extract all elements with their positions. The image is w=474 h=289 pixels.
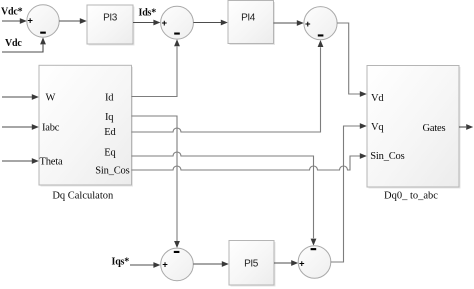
svg-text:+: +: [162, 260, 168, 271]
svg-text:Dq0_ to_abc: Dq0_ to_abc: [384, 191, 438, 202]
wire Vdc to summing junction S1 bottom: [2, 37, 46, 52]
svg-text:Vq: Vq: [371, 122, 384, 133]
svg-text:Id: Id: [105, 92, 114, 103]
svg-text:Sin_Cos: Sin_Cos: [95, 165, 129, 176]
svg-text:W: W: [46, 93, 56, 104]
wire Vdc* to summing junction S1: [2, 18, 27, 24]
svg-text:Theta: Theta: [40, 157, 63, 168]
svg-text:Eq: Eq: [104, 148, 116, 159]
wire S4 to PI5: [193, 261, 229, 267]
svg-text:Vdc: Vdc: [5, 38, 22, 49]
block Dq0_to_abc: [367, 66, 461, 189]
wire Eq to S5 top: [132, 152, 317, 246]
wire input W: [2, 94, 39, 100]
svg-text:+: +: [27, 16, 33, 27]
svg-text:PI3: PI3: [103, 13, 118, 24]
svg-text:+: +: [299, 259, 305, 270]
wire PI3 to summing junction S2: [133, 20, 160, 26]
wire S1 to PI3: [59, 18, 87, 24]
svg-text:PI4: PI4: [241, 13, 256, 24]
wire S5 to Vq input of Dq0_to_abc: [331, 123, 367, 262]
summing junction S4: [161, 248, 194, 281]
block PI3: [87, 5, 135, 46]
svg-text:Vd: Vd: [371, 93, 384, 104]
wire Sin_Cos to Dq0_to_abc: [132, 153, 367, 170]
summing junction S2: [161, 6, 194, 39]
wire Id to S2 bottom: [132, 39, 180, 96]
wire PI4 to summing junction S3: [274, 20, 304, 26]
wire input Theta: [2, 158, 39, 164]
svg-text:Vdc*: Vdc*: [1, 7, 23, 18]
svg-text:Sin_Cos: Sin_Cos: [370, 151, 404, 162]
svg-text:Iabc: Iabc: [42, 123, 60, 134]
svg-text:Ed: Ed: [104, 127, 116, 138]
svg-text:Iqs*: Iqs*: [112, 257, 130, 268]
summing junction S1: [27, 5, 59, 37]
svg-text:Ids*: Ids*: [139, 8, 157, 19]
block PI5: [229, 241, 276, 287]
svg-text:+: +: [162, 18, 168, 29]
svg-text:Iq: Iq: [105, 112, 114, 123]
wire Iq to S4 top: [132, 116, 180, 248]
wire Ed to S3 bottom: [132, 40, 324, 132]
wire input Iabc: [2, 124, 39, 130]
block PI4: [228, 1, 275, 46]
wire S2 to PI4: [193, 20, 227, 26]
wire Iqs* to summing junction S4: [130, 262, 160, 268]
wire Gates output: [459, 124, 473, 130]
svg-text:Gates: Gates: [423, 123, 446, 134]
wire S3 to Vd input of Dq0_to_abc: [337, 23, 367, 97]
summing junction S5: [298, 246, 331, 279]
svg-text:Dq Calculaton: Dq Calculaton: [52, 191, 114, 202]
block Dq Calculaton: [39, 65, 133, 186]
svg-text:+: +: [305, 19, 311, 30]
wire PI5 to summing junction S5: [274, 260, 298, 266]
svg-text:PI5: PI5: [244, 259, 259, 270]
summing junction S3: [304, 7, 337, 40]
